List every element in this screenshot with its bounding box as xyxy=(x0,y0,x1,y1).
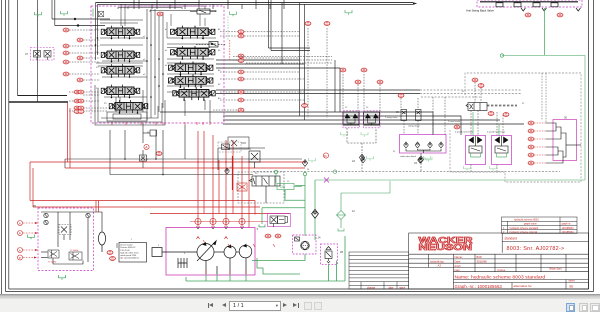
node A circled below block xyxy=(144,144,149,149)
thick grey linkage to travel valve xyxy=(487,105,517,107)
travel speed control valve xyxy=(466,103,487,111)
travel motor right (magenta box) xyxy=(487,124,512,165)
gear pump 2 xyxy=(224,246,236,258)
wire: upper interconnect steps xyxy=(118,6,216,12)
solenoid dump valve (magenta boxed, center bottom) xyxy=(268,214,291,228)
svg-text:22: 22 xyxy=(366,107,369,109)
svg-text:rated speed 2200: rated speed 2200 xyxy=(120,254,137,257)
pressure reducing cartridge (red) xyxy=(237,183,247,191)
wire: right-going bundle y60-68 xyxy=(216,59,300,61)
svg-text:13: 13 xyxy=(249,149,252,151)
port ovals under anti-swing valve xyxy=(525,13,531,17)
travel pilot valves pair 35 xyxy=(401,110,421,121)
bypass relief 28 (magenta box) xyxy=(321,244,344,264)
title block: main frame xyxy=(409,233,589,289)
dashed pilot drops to travel valve xyxy=(471,82,503,135)
svg-text:P5: P5 xyxy=(104,103,107,105)
svg-text:change: change xyxy=(367,287,376,290)
quick coupler manifold (magenta box right) xyxy=(546,116,581,164)
solenoid valve Y2 xyxy=(69,252,82,260)
svg-text:forsne: forsne xyxy=(498,268,506,272)
drawing frame left border lines xyxy=(1,0,3,294)
svg-text:P1: P1 xyxy=(96,29,99,31)
grey dashed mechanical boundary box xyxy=(450,73,581,182)
svg-text:a1: a1 xyxy=(143,36,146,38)
red circled port Po xyxy=(323,153,328,158)
small relief valve near top-left xyxy=(98,11,104,17)
wire: red sub headers y200/207/213 xyxy=(30,200,255,202)
wire: lower distribution bundle xyxy=(160,112,433,135)
dashed drops from boundary to coupler ladder xyxy=(471,73,546,172)
WACKER NEUSON logo xyxy=(419,236,473,252)
green bypass riser with check diamond 12 xyxy=(337,181,391,231)
grey dashed leak line long xyxy=(253,171,560,173)
svg-text:A2: A2 xyxy=(218,69,221,72)
wire: center long verticals to lower bundle xyxy=(299,3,301,116)
pump port number 3 xyxy=(223,218,229,224)
svg-text:A3: A3 xyxy=(218,97,221,100)
svg-text:12: 12 xyxy=(352,210,355,213)
green drain header y207 xyxy=(259,181,390,231)
svg-text:relief valve block: relief valve block xyxy=(400,155,417,158)
tank hook under pilot box xyxy=(59,275,66,280)
svg-text:A1: A1 xyxy=(218,28,221,31)
node P circled (pilot pressure) xyxy=(18,231,23,236)
svg-text:Graph.-nr.: 1000185663: Graph.-nr.: 1000185663 xyxy=(455,284,503,289)
misc tiny value labels xyxy=(96,28,525,255)
green pilot header and right riser xyxy=(502,56,585,181)
drawing frame bottom border lines xyxy=(9,288,589,290)
node P2 circled xyxy=(18,255,23,260)
svg-text:30: 30 xyxy=(564,116,567,120)
nav last-page button xyxy=(293,303,297,307)
svg-text:standard: standard xyxy=(505,236,518,240)
svg-text:P: P xyxy=(19,232,21,236)
magenta crossing marker on green header xyxy=(324,178,329,183)
svg-text:graph name: graph name xyxy=(524,223,537,226)
green suction/return piping at pumps xyxy=(186,236,345,281)
tank hook green at block top right xyxy=(230,12,237,17)
accumulator xyxy=(98,232,105,252)
svg-text:drwh: drwh xyxy=(455,264,462,268)
facing view icon xyxy=(590,303,600,312)
solenoid valve Y1 xyxy=(48,250,59,258)
svg-text:8003: Snr. AJ02782->: 8003: Snr. AJ02782-> xyxy=(507,246,565,252)
svg-text:hydraulic scheme optional: hydraulic scheme optional xyxy=(510,231,538,234)
pump case drain stubs xyxy=(205,261,207,275)
page number combo box xyxy=(229,301,281,311)
green marker circle and CW box xyxy=(274,170,302,196)
svg-text:b1: b1 xyxy=(165,29,168,31)
svg-text:P: P xyxy=(19,256,21,260)
svg-text:hydraulic scheme standard: hydraulic scheme standard xyxy=(510,227,539,230)
red ovals right of pump block xyxy=(265,234,271,238)
port ovals near engine box xyxy=(107,251,113,255)
swing brake valve right (magenta box) xyxy=(364,112,380,125)
pilot unit top rail xyxy=(41,211,90,213)
svg-text:Anti Swing Back Valve: Anti Swing Back Valve xyxy=(466,9,494,13)
travel motor left (magenta box) xyxy=(455,112,486,165)
svg-text:NEUSON: NEUSON xyxy=(419,243,473,252)
wire: drop from rail into block left xyxy=(95,3,97,60)
svg-text:15: 15 xyxy=(287,181,290,183)
wire: tank return header y159 xyxy=(65,125,302,175)
svg-text:24: 24 xyxy=(352,159,355,163)
red arrows at pump inlets xyxy=(197,237,228,240)
svg-text:20: 20 xyxy=(255,173,258,175)
junction dots on pilot bends xyxy=(74,18,76,20)
coupling comb xyxy=(178,258,187,268)
node A2 circled xyxy=(18,248,23,253)
port ovals above swing brake valves xyxy=(355,80,361,84)
tank hook right of check 34 (green) xyxy=(425,157,432,162)
svg-text:14: 14 xyxy=(318,236,321,240)
svg-text:100185664: 100185664 xyxy=(562,231,575,234)
travel supply manifold with anti-cavitation checks (magenta box) xyxy=(400,125,447,159)
extra block interconnect strokes xyxy=(96,9,216,92)
port marker ovals right of block xyxy=(156,12,367,155)
dashed pilot feeds to swing valves xyxy=(358,85,445,135)
wire: red risers from valve block xyxy=(67,103,69,162)
svg-text:B1: B1 xyxy=(218,50,221,52)
pump shaft line xyxy=(162,251,197,253)
port works block below valve block xyxy=(228,137,249,149)
svg-text:33: 33 xyxy=(393,151,396,153)
wire: red manifold y221.5 xyxy=(190,221,268,223)
engine flange box xyxy=(152,248,162,257)
title block red texts xyxy=(430,236,575,288)
red pilot supply network (bottom left) xyxy=(30,103,305,239)
wire: top supply rail double line xyxy=(96,2,414,4)
svg-text:Name: hydraulic scheme 8003 st: Name: hydraulic scheme 8003 standard xyxy=(455,274,546,280)
svg-text:4: 4 xyxy=(184,253,186,255)
svg-text:graph nr.: graph nr. xyxy=(562,223,572,226)
pump port number 4 xyxy=(239,218,245,224)
pump regulator dashed box xyxy=(218,142,241,152)
wire: red header y162 xyxy=(30,161,305,163)
pilot feed line to accumulator xyxy=(90,212,102,232)
pump port number 1 xyxy=(195,218,245,228)
svg-text:Begin (typ): Begin (typ) xyxy=(550,267,562,270)
svg-text:swing motor: swing motor xyxy=(408,125,420,128)
svg-text:sheet: sheet xyxy=(569,280,575,283)
check marks under port numbers xyxy=(196,227,243,229)
valve V3 bucket spool xyxy=(101,64,140,78)
valve 37 pilot selector (magenta boxed, far left) xyxy=(25,48,54,61)
green circled port xyxy=(333,170,337,174)
svg-text:34: 34 xyxy=(414,161,417,165)
check valve 34 under manifold xyxy=(418,156,423,163)
leak-line check valves with tank hooks along y172 xyxy=(302,156,496,171)
check valve on green riser xyxy=(312,209,319,218)
valve V2 arm spool xyxy=(101,49,140,63)
svg-text:Y2 100Hz: Y2 100Hz xyxy=(70,250,78,252)
pilot drain loop xyxy=(53,259,83,265)
svg-text:24: 24 xyxy=(307,169,310,171)
wire: left vertical feed line B xyxy=(37,0,39,102)
svg-text:idle speed=1100/min: idle speed=1100/min xyxy=(120,258,139,260)
pilot dashed lines feeding spools from left ports xyxy=(69,28,364,118)
nav next-page button xyxy=(283,303,287,307)
svg-text:CW: CW xyxy=(280,185,285,189)
svg-text:1: 1 xyxy=(131,239,133,241)
pressure reducer circles xyxy=(44,213,48,217)
small shuttle valve mid block xyxy=(196,42,226,48)
tank symbol green 2 xyxy=(61,11,68,16)
wire: dashed pilot bundle to swing section xyxy=(233,57,332,64)
port ovals at travel motors xyxy=(488,112,494,116)
svg-text:100185663: 100185663 xyxy=(562,227,575,230)
valve V10 spare spool xyxy=(173,87,215,101)
wires: grey dashed travel linkage xyxy=(253,73,581,182)
svg-text:Po: Po xyxy=(324,154,328,158)
port oval travel pilot xyxy=(454,125,460,129)
gear pump 3 xyxy=(239,245,252,258)
svg-text:B2: B2 xyxy=(218,84,221,86)
svg-text:a2: a2 xyxy=(143,59,146,61)
green pilot dashed tail xyxy=(227,17,229,41)
anti swing back valve assembly (magenta box, top right) xyxy=(466,0,582,13)
valve V6 swing spool xyxy=(171,26,215,40)
swing line check valve 24 xyxy=(359,154,364,161)
svg-text:31: 31 xyxy=(462,91,465,93)
wire: right-going pair y90-94 to travel xyxy=(216,89,420,91)
tank symbol green top left xyxy=(35,9,94,17)
svg-text:5: 5 xyxy=(158,245,160,247)
svg-text:35: 35 xyxy=(396,111,399,114)
svg-text:3: 3 xyxy=(225,220,227,224)
green pilot stub xyxy=(92,9,94,17)
svg-text:4: 4 xyxy=(241,220,243,224)
svg-text:P4: P4 xyxy=(96,88,99,90)
swing motor drop lines xyxy=(347,128,376,153)
pilot damper valve xyxy=(59,225,71,235)
block drain line with inline components below valve block xyxy=(140,123,157,168)
pump group (magenta box) xyxy=(152,227,275,275)
wire: red drops to pilot unit xyxy=(95,201,97,213)
svg-text:nam: nam xyxy=(455,268,461,272)
red pilot dashed tail xyxy=(229,40,231,60)
wire: heavy tank return into block xyxy=(9,101,68,103)
valve V8 travel-right spool xyxy=(169,61,213,75)
pump port number 2 xyxy=(210,218,216,224)
svg-text:a3: a3 xyxy=(143,74,146,76)
wires: short drops from rail to block top xyxy=(120,4,122,9)
valve V7 travel-left spool xyxy=(171,46,215,60)
green pilot drop from anti-swing valve xyxy=(303,8,585,240)
gallery junction dots xyxy=(95,37,164,98)
history fwd icon (disabled) xyxy=(314,302,322,310)
svg-text:date: date xyxy=(389,287,394,290)
small relief valve top of block xyxy=(190,9,216,14)
svg-text:P2: P2 xyxy=(96,52,99,54)
svg-text:1: 1 xyxy=(197,220,199,224)
valve V5 blade spool xyxy=(109,100,148,114)
nav first-page button xyxy=(209,303,213,307)
swing brake valve left (magenta box) xyxy=(343,112,359,125)
red tick port labels on block bottom edge xyxy=(112,122,210,125)
valve V9 offset spool xyxy=(169,74,213,88)
main variable displacement pump xyxy=(152,241,252,274)
svg-text:32: 32 xyxy=(522,103,525,105)
svg-text:2: 2 xyxy=(212,220,214,224)
main control valve block boundary (magenta dashed) xyxy=(91,6,224,123)
nav prev-page button xyxy=(222,303,226,307)
wire: red header y168 xyxy=(65,167,305,169)
title block: revision table top right xyxy=(502,217,578,233)
title block: left revision grid xyxy=(349,252,409,289)
junction dots on headers xyxy=(124,158,227,175)
single page view icon (active) xyxy=(566,303,575,312)
svg-text:1 swing motor: 1 swing motor xyxy=(385,116,398,119)
tank hooks below swing valves (green) xyxy=(341,132,369,137)
port marker ovals left column xyxy=(63,28,84,113)
svg-text:P3: P3 xyxy=(96,67,99,69)
svg-text:Y1 100Hz: Y1 100Hz xyxy=(48,261,56,263)
green return header bottom xyxy=(315,179,585,181)
svg-text:35: 35 xyxy=(33,204,36,208)
svg-text:2 speed travel motor: 2 speed travel motor xyxy=(487,131,506,134)
valve block internal nested outlines xyxy=(95,85,165,125)
pilot internal risers xyxy=(57,212,59,247)
svg-text:Bl.: Bl. xyxy=(570,284,574,288)
continuous view icon xyxy=(579,303,588,312)
manifold ladder piping xyxy=(546,123,581,163)
internal gallery lines of valve block xyxy=(100,9,216,123)
wire: center vertical pair to swing bundle xyxy=(269,0,311,64)
port ovals to quick coupler manifold xyxy=(528,121,534,165)
svg-text:22: 22 xyxy=(345,107,348,109)
wire: bend of pilot pair heading right xyxy=(52,18,110,20)
diesel engine data box xyxy=(117,243,147,263)
svg-text:b2: b2 xyxy=(165,50,168,52)
svg-text:alternative for.: alternative for. xyxy=(514,284,533,288)
red suction labels under pumps xyxy=(203,240,275,274)
wire: left vertical feed line A xyxy=(9,0,524,135)
drawing frame right border lines xyxy=(588,0,590,289)
svg-text:37: 37 xyxy=(25,52,28,56)
wire: left vertical pilot pair xyxy=(51,0,53,19)
svg-text:hydraulic scheme 8003: hydraulic scheme 8003 xyxy=(514,218,539,221)
wire: red left risers xyxy=(29,162,31,201)
svg-text:b3: b3 xyxy=(165,65,168,67)
svg-text:A3: A3 xyxy=(438,264,442,268)
dashed pilot continuations to center risers xyxy=(244,32,305,100)
valve V4 aux spool xyxy=(101,85,140,99)
svg-text:3: 3 xyxy=(257,227,259,231)
unloading valve group center (valve 13) xyxy=(218,148,284,203)
history back icon (disabled) xyxy=(304,302,312,310)
regulator internals xyxy=(222,144,230,150)
return filter unit 14 (magenta box) xyxy=(293,235,321,254)
red stub dashes from ovals into manifold xyxy=(534,123,546,163)
tank symbol green at pilot box xyxy=(28,235,35,240)
extra port ovals right of block xyxy=(238,54,244,58)
svg-text:Perkins 404D-22: Perkins 404D-22 xyxy=(120,246,136,249)
svg-text:28: 28 xyxy=(340,250,343,254)
pilot ovals above travel valve xyxy=(472,78,478,82)
valve V1 boom spool xyxy=(101,26,140,40)
pilot control unit (magenta dashed box bottom left) xyxy=(33,204,94,271)
green hook near swing rail xyxy=(345,10,352,15)
svg-text:2 speed travel motor: 2 speed travel motor xyxy=(455,131,474,134)
svg-text:1 travel motor: 1 travel motor xyxy=(448,120,461,123)
svg-text:name: name xyxy=(399,287,406,290)
node A circled (pilot supply) xyxy=(18,221,39,261)
svg-text:3016/98: 3016/98 xyxy=(477,260,488,264)
wire: red pump risers xyxy=(197,131,199,228)
